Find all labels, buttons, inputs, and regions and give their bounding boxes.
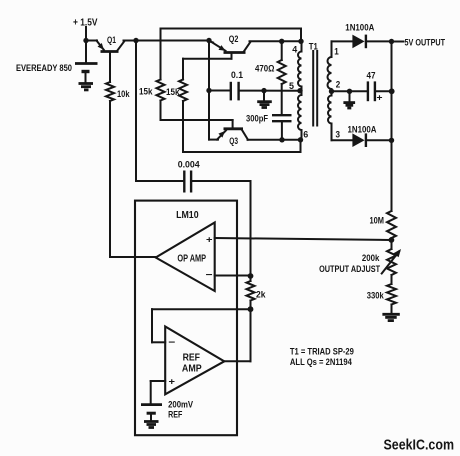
wire emitter rail xyxy=(208,41,210,140)
svg-text:Q2: Q2 xyxy=(229,34,239,45)
svg-text:LM10: LM10 xyxy=(176,209,199,221)
svg-text:5V OUTPUT: 5V OUTPUT xyxy=(405,38,446,49)
wire supply lead xyxy=(85,27,87,63)
svg-text:T1 = TRIAD SP-29: T1 = TRIAD SP-29 xyxy=(290,347,354,358)
node 5V output xyxy=(389,39,394,44)
svg-text:1: 1 xyxy=(334,47,339,58)
svg-text:+: + xyxy=(169,377,176,387)
svg-text:+: + xyxy=(377,93,383,103)
svg-text:0.004: 0.004 xyxy=(178,159,201,170)
svg-text:EVEREADY 850: EVEREADY 850 xyxy=(16,63,72,74)
svg-text:47: 47 xyxy=(367,70,376,81)
wire 15k2 top to Q2 base xyxy=(182,59,184,80)
svg-text:4: 4 xyxy=(292,45,298,56)
node tap2 ground junction xyxy=(347,89,352,94)
svg-text:AMP: AMP xyxy=(182,363,202,374)
svg-text:−: − xyxy=(206,270,213,281)
svg-text:1N100A: 1N100A xyxy=(348,124,377,135)
wire 15k2 bottom to bottom rail xyxy=(182,101,184,152)
node tap5 xyxy=(297,88,302,93)
node 2k bottom / ref out xyxy=(248,306,254,312)
wire tap6 to bottom rail xyxy=(300,140,302,152)
transformer T1 primary winding xyxy=(301,41,303,51)
ground tap2 xyxy=(349,91,351,101)
svg-text:3: 3 xyxy=(336,130,341,141)
wire 10k bottom to op-amp output xyxy=(109,101,111,257)
resistor R1 10k xyxy=(106,82,114,101)
svg-text:ALL Qs = 2N1194: ALL Qs = 2N1194 xyxy=(290,357,353,368)
node rail junction xyxy=(133,38,138,43)
op-amp U1a xyxy=(156,223,215,292)
svg-text:0.1: 0.1 xyxy=(231,70,244,81)
wire to Q1 emitter xyxy=(86,40,97,42)
node minus / 2k top xyxy=(248,273,254,279)
svg-text:+: + xyxy=(206,235,213,245)
ground 0.1 xyxy=(263,91,265,101)
svg-text:2: 2 xyxy=(336,80,341,91)
node bottom diode to rail xyxy=(389,138,394,143)
svg-text:10M: 10M xyxy=(370,216,385,227)
wire tap3 to diode xyxy=(332,139,353,141)
svg-text:470Ω: 470Ω xyxy=(255,64,275,75)
wire ref amp plus input xyxy=(151,380,166,382)
wire output rail xyxy=(391,42,393,212)
node Q2 emitter junction xyxy=(206,38,211,43)
node 0.1 ground junction xyxy=(261,88,266,93)
svg-text:Q3: Q3 xyxy=(229,136,238,147)
node battery tap xyxy=(83,38,88,43)
svg-text:330k: 330k xyxy=(367,291,385,302)
ground 330k xyxy=(382,313,399,316)
wire 15k1 top to rail A xyxy=(160,29,162,80)
svg-text:6: 6 xyxy=(303,130,308,141)
op-amp U1b REF AMP xyxy=(165,327,224,395)
battery 200mV REF xyxy=(141,403,162,406)
node tap4 xyxy=(298,39,303,44)
svg-text:10k: 10k xyxy=(117,89,130,100)
node 470 top xyxy=(279,39,284,44)
svg-text:15k: 15k xyxy=(139,87,153,98)
ground battery xyxy=(79,82,94,85)
svg-text:REF: REF xyxy=(183,353,200,364)
wire collector node down to 0.004 xyxy=(135,41,137,182)
IC U1 LM10 box xyxy=(135,201,237,436)
svg-text:REF: REF xyxy=(168,410,182,421)
svg-text:Q1: Q1 xyxy=(107,35,116,46)
wire op-amp minus input xyxy=(215,275,251,277)
svg-text:OUTPUT ADJUST: OUTPUT ADJUST xyxy=(319,264,380,275)
transformer T1 secondary winding xyxy=(331,41,333,57)
svg-text:−: − xyxy=(168,337,175,348)
wire junction to op-amp + input xyxy=(215,238,392,240)
ground 200mV xyxy=(144,420,159,423)
wire 15k1 bottom to Q3 base xyxy=(160,101,162,121)
svg-text:2k: 2k xyxy=(256,290,266,301)
svg-text:OP AMP: OP AMP xyxy=(177,254,206,265)
node 10M / wiper junction xyxy=(389,237,395,243)
wire Q2 collector to transformer xyxy=(250,40,302,42)
node tap6 xyxy=(298,137,303,142)
node 300pF bottom xyxy=(279,137,284,142)
wire ref amp feedback xyxy=(152,308,251,310)
wire Q3 collector xyxy=(248,139,301,141)
wire Q1 collector rail xyxy=(124,40,210,42)
wire ref amp output xyxy=(224,360,250,362)
svg-text:SeekIC.com: SeekIC.com xyxy=(384,437,455,454)
wire tap1 to diode xyxy=(332,40,353,42)
node emitter rail / 0.1 junction xyxy=(206,88,211,93)
svg-text:200k: 200k xyxy=(362,253,380,264)
node 47 to rail xyxy=(389,88,395,94)
wire tap2 xyxy=(329,89,334,94)
svg-text:5: 5 xyxy=(289,81,295,92)
svg-text:1N100A: 1N100A xyxy=(345,23,374,34)
svg-text:300pF: 300pF xyxy=(246,114,268,125)
